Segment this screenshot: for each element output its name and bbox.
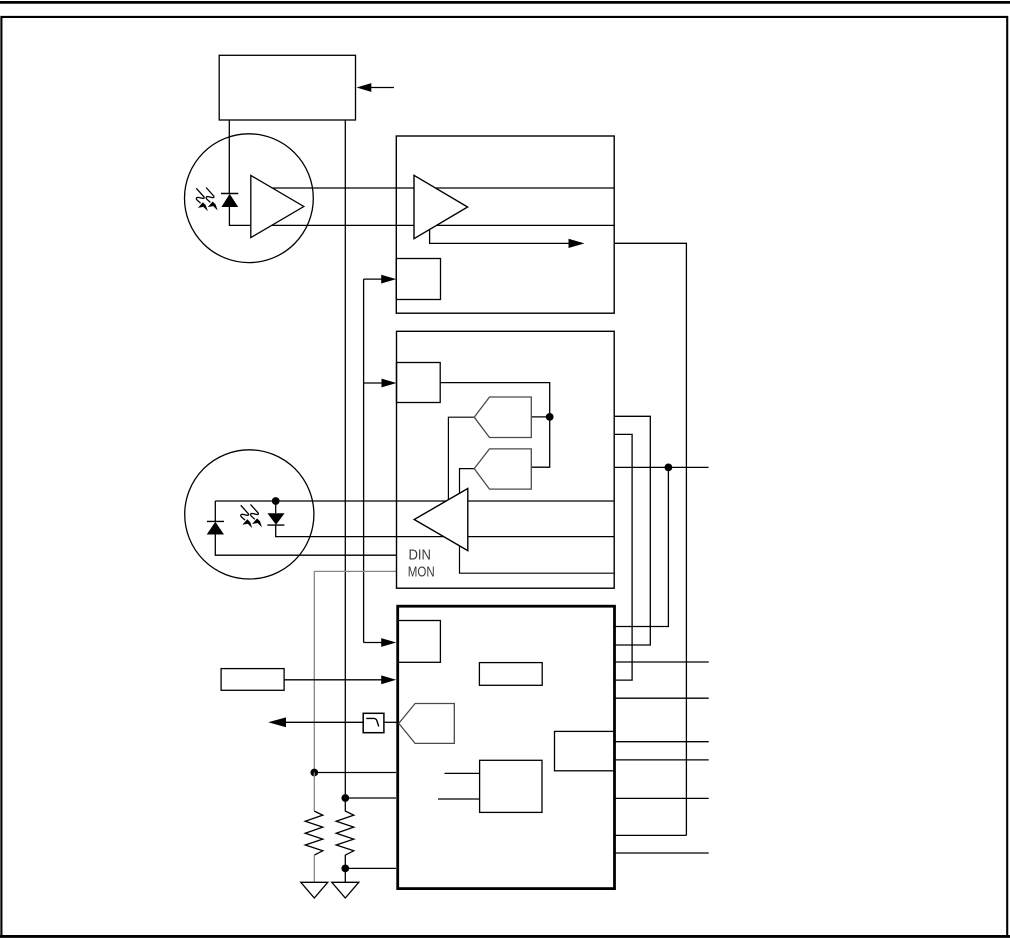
wire: branch into block1 sub-box [364, 278, 382, 280]
ground symbol 2 [332, 882, 359, 898]
block3 right pin stub 6 [615, 852, 708, 854]
right interface box [555, 731, 615, 770]
ground symbol 1 [301, 882, 328, 898]
wire: through line 3 (LED anode net) [215, 500, 614, 502]
wire: block2 out2 to block3 [614, 434, 632, 680]
amplifier in RX optocoupler [251, 175, 304, 237]
light arrow 2 into photodiode [206, 188, 218, 211]
wire: through line 1 (receiver amp output to block1) [252, 187, 614, 189]
wire: block2 out3 pin stub [614, 466, 708, 468]
wire: top box to photodiode cathode [228, 120, 230, 194]
wire: filter to flag3 [384, 721, 399, 723]
arrowhead into top box right edge [357, 83, 372, 92]
arrowhead into block3 sub-box [381, 638, 396, 647]
wire: flag1 output stub [532, 416, 550, 418]
junction node at flag1 output [546, 413, 554, 421]
wire: feedback bus into block3 right edge [615, 834, 686, 836]
junction node on out3 [665, 464, 673, 472]
wire: branch into block3 sub-box [364, 642, 382, 644]
light arrow 1 into photodiode [196, 188, 208, 211]
wire: vertical control bus feeding the three sub-boxes [363, 279, 365, 642]
light arrow 4 emitted [251, 504, 263, 527]
wire: block2 out1 to block3 [614, 416, 650, 645]
arrowhead block1 internal [569, 239, 585, 248]
wire: out3 branch down into block3 [615, 467, 668, 626]
left input box [221, 669, 284, 691]
wire: R1 lower lead (grey) [313, 855, 315, 882]
resistor R2 [336, 798, 354, 882]
block3 right pin stub 4 [615, 759, 708, 761]
wire: top box right vertical bus down to resistor R2 node [344, 120, 346, 798]
mid box A [479, 663, 542, 686]
LED D3 (down) [267, 513, 284, 525]
optocoupler TX circle [185, 450, 314, 579]
buffer amp U1 in block1 [414, 175, 468, 238]
block2 sub-box (control) [397, 363, 441, 403]
svg-text:MON: MON [408, 564, 435, 581]
wire: through line 4 (LED cathode net) [276, 525, 615, 537]
crystal box stubs [438, 773, 479, 799]
page top rule [0, 1, 1010, 4]
top box (oscillator/input block) [219, 55, 355, 120]
block2 (driver / DIN MON block) [397, 331, 615, 588]
block3 sub-box (control) [398, 621, 441, 663]
block3 (main control IC, thick border) [398, 606, 615, 888]
output driver triangle (left pointing) [414, 489, 468, 551]
photodiode D1 [221, 194, 238, 208]
block3 right pin stub 5 [615, 797, 708, 799]
wire: left diode top connection [214, 501, 216, 522]
svg-text:DIN: DIN [409, 547, 432, 564]
wire: block1 internal arrow line [430, 230, 569, 244]
wire: DIN net from optocoupler to block2 [215, 535, 396, 556]
arrowhead monitor output (points left) [268, 717, 286, 727]
junction node R2 bottom [341, 865, 349, 873]
tri-state flag 1 [474, 397, 531, 438]
junction node R2 top [341, 794, 349, 802]
junction node R1 top [310, 769, 318, 777]
crystal box [480, 760, 542, 812]
wire: input stub into top box [371, 87, 394, 89]
wire: MON net (grey) to resistor R1 node [314, 571, 396, 772]
arrowhead into block2 sub-box [382, 379, 397, 388]
optocoupler RX circle [185, 134, 314, 263]
light arrow 3 emitted [241, 505, 253, 528]
arrowhead into block3 left edge [381, 675, 396, 684]
resistor R1 [305, 811, 323, 855]
arrowhead into block1 sub-box [381, 275, 396, 284]
wire: LED top connection [275, 501, 277, 513]
wire: branch into block2 sub-box [364, 382, 382, 384]
block3 right pin stub 3 [615, 741, 708, 743]
tri-state flag 2 [474, 449, 531, 489]
wire: sub-box to tri-state pair [440, 383, 550, 468]
low pass filter box [363, 713, 384, 732]
block3 right pin stub 2 [615, 697, 708, 699]
wire: left input box to block3 [284, 679, 382, 681]
diode D2 (up) [207, 521, 224, 534]
wire: R1 upper lead (grey) [313, 773, 315, 812]
wire: R2 bottom node into block3 [345, 867, 396, 869]
wire: monitor output line [286, 721, 364, 723]
block1 (receiver logic) [396, 136, 614, 313]
block1 sub-box (control) [396, 259, 440, 300]
wire: R1 node into block3 [314, 772, 396, 774]
wire: flag2 enable drop to block2 right edge [460, 469, 615, 574]
junction node on LED anode [272, 497, 280, 505]
wire: flag1 enable drop [448, 417, 474, 501]
wire: diode elbow, through line 2 into block1 [229, 207, 614, 225]
wire: R2 node into block3 [345, 797, 396, 799]
wire: block1 output to right feedback bus [614, 243, 686, 835]
page bottom rule [0, 935, 1010, 938]
block3 right pin stub 1 [615, 661, 708, 663]
tri-state flag 3 [399, 704, 455, 744]
